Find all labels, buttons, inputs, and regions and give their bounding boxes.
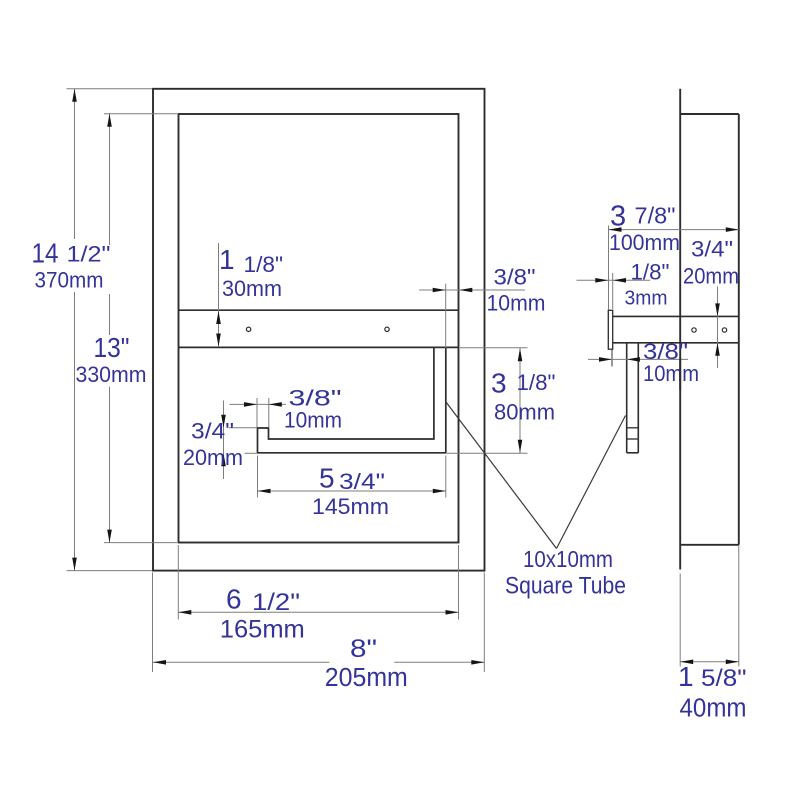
dim 3/8 top-right line: [419, 289, 525, 291]
dim 1 5/8 line: [680, 661, 739, 663]
svg-text:20mm: 20mm: [183, 445, 243, 470]
dim 14 1/2 arrow down: [72, 558, 77, 571]
svg-text:1/8": 1/8": [517, 370, 556, 395]
dim 1/8 ext right: [612, 273, 614, 309]
dim 1 1/8 arrow up: [216, 311, 221, 324]
dim 8 arrow right: [471, 660, 484, 665]
side view screw hole left: [692, 328, 696, 332]
dim 3 7/8 arrow right: [726, 227, 739, 232]
svg-text:80mm: 80mm: [494, 400, 555, 425]
svg-text:5/8": 5/8": [701, 665, 747, 692]
dim 1 1/8 line: [218, 243, 220, 347]
svg-text:1/8": 1/8": [244, 252, 284, 277]
dim 8 arrow left: [153, 660, 166, 665]
side view screw hole right: [722, 328, 726, 332]
dim 5 3/4 arrow right: [433, 489, 446, 494]
svg-text:10mm: 10mm: [284, 408, 342, 433]
dim 1 1/8 arrow down: [216, 334, 221, 347]
dim 3/8 side line: [588, 358, 688, 360]
dim 3/8 side arrow left: [627, 357, 640, 362]
dim 1 5/8 ext left: [679, 574, 681, 667]
dim 3 1/8 ext top: [460, 347, 528, 349]
side view box back edge: [738, 114, 740, 545]
dim 3/8 step ext left: [256, 398, 258, 427]
dim 8 line right: [394, 661, 484, 663]
side view arm bottom edge: [613, 342, 739, 344]
dim 6 1/2 arrow left: [178, 610, 191, 615]
side view box top edge: [680, 113, 739, 115]
dim 6 1/2 line: [178, 611, 458, 613]
svg-text:3/8": 3/8": [494, 265, 536, 290]
dim 3/4 side arrow down: [715, 303, 720, 316]
dim 1 5/8 arrow right: [726, 660, 739, 665]
dim 14 1/2 arrow up: [72, 89, 77, 102]
dim 5 3/4 arrow left: [258, 489, 271, 494]
dim 3/8 step arrow left: [269, 402, 282, 407]
side view tube step line lower: [627, 438, 639, 440]
dim 3/8 top-right arrow left: [459, 288, 472, 293]
dim 3/4 left arrow up: [221, 453, 226, 466]
dim 14 1/2 line upper: [74, 89, 76, 239]
svg-text:20mm: 20mm: [683, 264, 739, 289]
dim 3/8 step arrow right: [244, 402, 257, 407]
dim 3 1/8 ext bottom: [447, 452, 528, 454]
dim 3 1/8 arrow up: [518, 348, 523, 361]
svg-text:100mm: 100mm: [609, 230, 680, 255]
svg-text:1/8": 1/8": [631, 260, 670, 285]
dim 1/8 arrow right: [595, 278, 608, 283]
side view tube bottom edge: [627, 452, 639, 454]
dim 1 5/8 arrow left: [680, 660, 693, 665]
paper holder bar outline: [258, 347, 446, 452]
front view inner frame: [179, 114, 459, 543]
dim 5 3/4 ext right: [445, 456, 447, 498]
dim 5 3/4 ext left: [257, 456, 259, 498]
svg-text:13": 13": [94, 332, 130, 363]
dim 6 1/2 ext left: [177, 545, 179, 620]
svg-text:7/8": 7/8": [635, 203, 676, 229]
svg-text:10mm: 10mm: [487, 291, 546, 316]
dim 3/4 left line: [223, 401, 225, 480]
dim 3/8 step ext right: [268, 398, 270, 427]
dim 8 ext left: [152, 573, 154, 673]
svg-text:8": 8": [350, 635, 377, 663]
dim 1 5/8 ext right: [738, 546, 740, 667]
dim 3/8 top-right arrow right: [433, 288, 446, 293]
svg-text:165mm: 165mm: [220, 616, 305, 644]
dim 8 ext right: [483, 573, 485, 673]
dim 13 arrow down: [107, 530, 112, 543]
dim 3 7/8 ext left: [608, 226, 610, 310]
dim 1/8 line: [577, 279, 651, 281]
svg-text:3/4": 3/4": [691, 237, 733, 262]
svg-text:3mm: 3mm: [625, 287, 668, 310]
dim 3/8 side arrow right: [599, 357, 612, 362]
dim 13 line upper: [109, 114, 111, 245]
dim 3 7/8 arrow left: [609, 227, 622, 232]
side view tube right edge: [637, 343, 639, 453]
side view flange front edge overlay (drawn over 10mm label): [679, 358, 681, 390]
side view box bottom edge: [680, 544, 739, 546]
dim 3/4 side line: [717, 287, 719, 369]
svg-text:3: 3: [610, 201, 626, 233]
svg-text:3/4": 3/4": [339, 469, 385, 494]
svg-text:1: 1: [678, 661, 694, 692]
leader line left branch: [446, 402, 557, 549]
dim 13 line middle: [109, 294, 111, 335]
dim 14 1/2 line lower: [74, 292, 76, 571]
dim 8 line left: [153, 661, 329, 663]
side view tube step line upper: [627, 427, 639, 429]
mounting bar top edge: [179, 309, 459, 311]
svg-text:1/2": 1/2": [252, 589, 300, 616]
side view flange front edge: [679, 89, 681, 570]
svg-text:6: 6: [226, 584, 242, 615]
screw hole right: [385, 327, 389, 331]
dim 3/4 left arrow down: [221, 415, 226, 428]
dim 6 1/2 arrow right: [446, 610, 459, 615]
dim 6 1/2 ext right: [458, 545, 460, 620]
dim 3/8 step line: [230, 403, 287, 405]
dim 13 ext line bottom: [104, 542, 177, 544]
svg-text:3: 3: [491, 368, 507, 399]
svg-text:Square Tube: Square Tube: [505, 573, 626, 600]
dim 14 1/2 ext line bottom: [67, 570, 153, 572]
dim 5 3/4 line: [258, 490, 446, 492]
svg-text:5: 5: [319, 463, 335, 494]
svg-text:14: 14: [32, 238, 59, 269]
dim 3/4 left ext bottom: [245, 452, 257, 454]
svg-text:205mm: 205mm: [325, 664, 408, 692]
svg-text:1: 1: [219, 244, 235, 275]
svg-text:1/2": 1/2": [67, 242, 111, 267]
side view arm top edge: [613, 315, 739, 317]
svg-text:10x10mm: 10x10mm: [523, 546, 613, 572]
svg-text:145mm: 145mm: [312, 494, 389, 519]
svg-text:370mm: 370mm: [35, 268, 104, 293]
dim 13 arrow up: [107, 114, 112, 127]
dim 14 1/2 ext line top: [67, 88, 153, 90]
svg-text:330mm: 330mm: [76, 362, 147, 387]
dim 3 1/8 arrow down: [518, 440, 523, 453]
dim 3/4 side arrow up: [715, 343, 720, 356]
dim 3/8 top-right ext line: [445, 284, 447, 348]
side view tube left edge: [626, 343, 628, 453]
svg-text:10mm: 10mm: [643, 361, 699, 386]
svg-text:40mm: 40mm: [680, 695, 747, 723]
dim 13 ext line top: [104, 113, 177, 115]
dim 3 7/8 line: [609, 229, 739, 231]
dim 3 1/8 line: [519, 348, 521, 453]
dim 13 line lower: [109, 387, 111, 543]
dim 1/8 arrow left: [613, 278, 626, 283]
front view outer frame: [153, 89, 485, 571]
svg-text:30mm: 30mm: [222, 276, 282, 301]
dim 3/4 left ext top: [229, 427, 257, 429]
mounting bar bottom edge: [179, 346, 459, 348]
leader line right branch: [557, 416, 626, 549]
svg-text:3/4": 3/4": [191, 419, 234, 444]
dim 3/8 side ext: [611, 350, 613, 367]
screw hole left: [246, 327, 250, 331]
side view end plate: [608, 310, 612, 349]
